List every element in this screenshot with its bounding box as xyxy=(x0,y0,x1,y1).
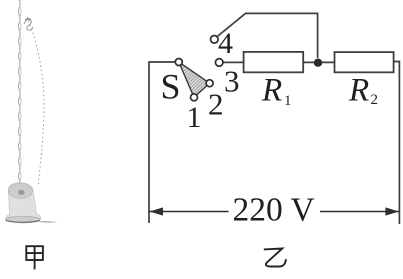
cord second strand xyxy=(20,0,22,184)
twisted hanging cord xyxy=(19,0,21,184)
svg-text:1: 1 xyxy=(187,101,202,134)
svg-text:220 V: 220 V xyxy=(233,191,315,228)
wiper bottom circle xyxy=(191,94,198,101)
220V dimension arrow right segment xyxy=(320,211,399,213)
left arrowhead xyxy=(150,207,164,215)
svg-text:R: R xyxy=(261,73,282,109)
wire contact3 to R1 xyxy=(223,61,243,63)
220V dimension arrow left segment xyxy=(149,211,229,213)
wiper pivot circle xyxy=(175,59,182,66)
svg-text:2: 2 xyxy=(371,92,379,108)
wiper right circle xyxy=(206,80,213,87)
loose thread curve xyxy=(27,17,44,184)
wire contact4 to top xyxy=(218,13,318,58)
hanging object body xyxy=(6,183,41,222)
right supply wire xyxy=(394,62,400,225)
svg-text:4: 4 xyxy=(218,27,233,60)
right arrowhead xyxy=(385,207,399,215)
object top cap xyxy=(9,183,33,198)
knot scribble on cord xyxy=(24,19,33,31)
svg-text:S: S xyxy=(161,67,181,107)
base shadow xyxy=(40,221,58,223)
resistor R1 xyxy=(244,52,304,72)
label jia (甲) xyxy=(26,246,43,269)
label yi (乙) xyxy=(264,249,286,267)
base rim dark lower edge xyxy=(6,220,41,222)
resistor R2 xyxy=(335,52,394,72)
switch S wiper triangle xyxy=(179,62,210,97)
contact 4 circle xyxy=(211,36,219,44)
svg-text:1: 1 xyxy=(284,93,292,109)
left supply wire xyxy=(149,62,175,223)
object base rim xyxy=(5,216,40,223)
junction dot xyxy=(314,59,322,67)
contact 3 circle xyxy=(215,59,223,67)
svg-text:2: 2 xyxy=(208,87,224,122)
svg-text:3: 3 xyxy=(224,64,240,99)
object cord attachment spot xyxy=(18,190,24,196)
wire R1 to R2 xyxy=(303,61,334,63)
svg-text:R: R xyxy=(348,73,369,109)
